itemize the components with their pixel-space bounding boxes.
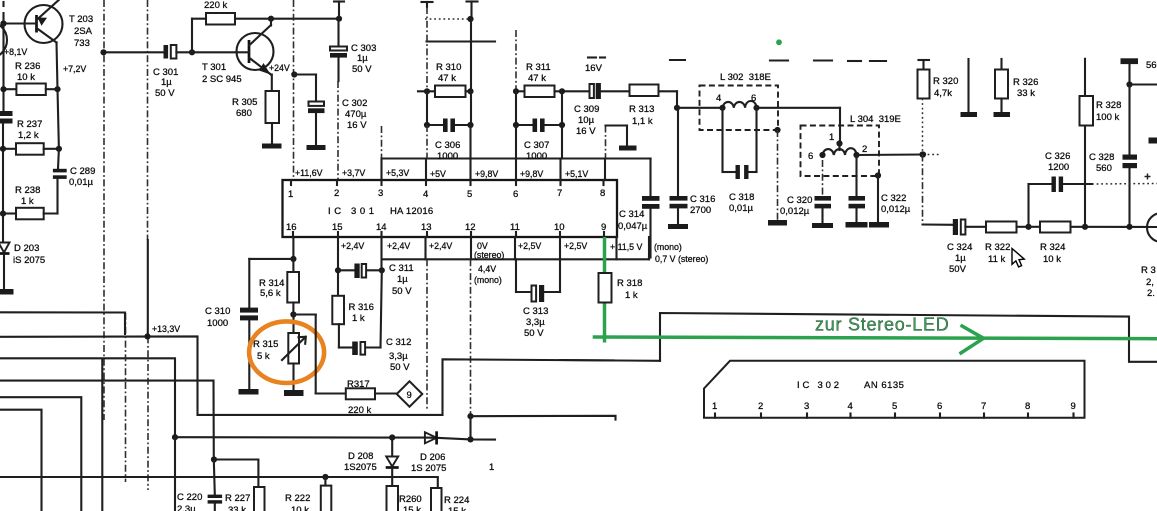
wire duct lower-left tail [560, 359, 614, 361]
resistor R328 [1084, 59, 1086, 96]
svg-text:R 236: R 236 [15, 61, 40, 72]
capacitor C312 [381, 270, 382, 347]
capacitor C316 [677, 108, 679, 196]
chain pin1 column +24V [293, 0, 295, 180]
duct outline [660, 313, 1157, 362]
svg-text:(mono): (mono) [654, 242, 682, 252]
capacitor C311 [337, 237, 339, 270]
chain x125.5 lower [125, 313, 127, 482]
svg-text:R 322: R 322 [985, 242, 1010, 253]
svg-text:0,012µ: 0,012µ [780, 206, 810, 217]
chain pin13 column down [426, 259, 428, 410]
resistor R305 [266, 91, 280, 123]
section chain line x148 [147, 0, 149, 240]
svg-text:1,2 k: 1,2 k [18, 130, 39, 141]
ground [668, 224, 688, 229]
capacitor C289 [57, 149, 60, 169]
wire top rail to C303 [271, 18, 339, 20]
ground [846, 222, 868, 228]
svg-text:+7,2V: +7,2V [63, 64, 86, 74]
svg-text:2: 2 [758, 401, 763, 412]
svg-text:C 314: C 314 [619, 209, 644, 220]
transistor (partial, right edge) [1147, 213, 1157, 242]
capacitor C309 [590, 84, 594, 98]
wire C301 input [104, 51, 164, 53]
ground [768, 220, 787, 226]
wire +24V to C302 [291, 71, 297, 77]
ground [284, 390, 304, 396]
svg-text:R 324: R 324 [1040, 242, 1065, 253]
svg-text:1: 1 [712, 401, 717, 412]
green dot [776, 39, 782, 45]
svg-text:1S 2075: 1S 2075 [411, 463, 446, 474]
svg-text:C 306: C 306 [435, 140, 460, 151]
svg-text:220 k: 220 k [204, 0, 227, 11]
svg-text:5 k: 5 k [257, 351, 270, 362]
svg-text:16: 16 [286, 222, 297, 233]
svg-text:R317: R317 [347, 379, 370, 390]
svg-text:6: 6 [513, 189, 518, 200]
wire left rail [2, 2, 4, 6]
resistor R224 [431, 488, 442, 511]
ground [619, 146, 637, 151]
svg-text:C 324: C 324 [947, 242, 972, 253]
capacitor C313 [515, 259, 517, 292]
svg-text:T 203: T 203 [69, 14, 93, 25]
svg-text:R 328: R 328 [1096, 100, 1121, 111]
svg-text:6: 6 [751, 93, 756, 104]
svg-text:14: 14 [376, 222, 387, 233]
wire to R227 [214, 460, 258, 488]
svg-text:R 237: R 237 [17, 119, 42, 130]
capacitor C314 [642, 196, 660, 201]
dashes seam y60 [670, 60, 886, 61]
svg-text:1000: 1000 [437, 151, 458, 162]
green wire vertical [603, 237, 607, 343]
svg-text:1µ: 1µ [161, 77, 172, 88]
svg-text:15 k: 15 k [448, 506, 466, 511]
svg-text:1,1 k: 1,1 k [632, 116, 653, 127]
pin ticks top [291, 180, 604, 185]
green arrow [961, 325, 984, 338]
svg-text:+2,5V: +2,5V [564, 241, 587, 251]
svg-text:10 k: 10 k [1043, 254, 1061, 265]
svg-text:D 203: D 203 [14, 243, 39, 254]
capacitor C306 [426, 91, 428, 125]
svg-text:(mono): (mono) [474, 275, 502, 285]
pin16 column [292, 237, 294, 259]
svg-text:1: 1 [288, 189, 293, 200]
svg-text:(stereo): (stereo) [474, 250, 504, 260]
svg-text:R 238: R 238 [15, 185, 40, 196]
svg-text:C 302: C 302 [342, 98, 367, 109]
svg-text:2: 2 [862, 144, 867, 155]
svg-text:8: 8 [600, 188, 605, 199]
svg-text:50 V: 50 V [390, 362, 410, 373]
svg-text:9: 9 [1071, 401, 1076, 412]
IC U302 AN6135 [704, 361, 1085, 418]
green wire horizontal [593, 337, 1157, 339]
svg-text:R260: R260 [399, 494, 422, 505]
wire collector T203 down [57, 43, 58, 90]
svg-text:+9,8V: +9,8V [475, 169, 498, 179]
capacitor C302 [309, 102, 325, 106]
svg-text:+5V: +5V [430, 169, 446, 179]
svg-text:+24V: +24V [269, 63, 290, 73]
svg-text:2,3µ: 2,3µ [177, 504, 196, 511]
wire +13,3V upper branch [0, 312, 125, 334]
svg-text:1000: 1000 [207, 318, 228, 329]
svg-text:R 326: R 326 [1013, 77, 1038, 88]
wire [2, 124, 4, 214]
resistor R310 [418, 90, 435, 92]
section chain line x104 [103, 0, 105, 420]
wire dashes y19 [425, 18, 471, 20]
diode D208 [391, 438, 393, 457]
wire y41.5 [427, 40, 496, 42]
ground [0, 289, 14, 295]
svg-text:50 V: 50 V [524, 328, 544, 339]
svg-text:+13,3V: +13,3V [152, 324, 180, 334]
IC U301 HA12016 [283, 180, 618, 237]
svg-text:T 301: T 301 [202, 62, 226, 73]
svg-text:R 305: R 305 [232, 97, 257, 108]
capacitor under L304 pin2 [855, 155, 857, 196]
columns to strip [515, 125, 517, 159]
resistor R238 [16, 208, 44, 220]
top voltage strip box [382, 159, 651, 181]
chain pin12 column down [470, 259, 472, 416]
svg-text:16V: 16V [585, 63, 603, 74]
chain pin3 column [381, 126, 383, 159]
chain pin4 column [426, 7, 428, 91]
svg-text:C 309: C 309 [574, 104, 599, 115]
wire R320/L304 node to C324 [919, 151, 925, 157]
svg-text:3: 3 [804, 401, 809, 412]
svg-text:4: 4 [848, 401, 853, 412]
resistor R227 [254, 487, 265, 511]
svg-text:50V: 50V [949, 264, 967, 275]
capacitor C328 [1128, 85, 1130, 155]
svg-text:33 k: 33 k [228, 505, 246, 511]
wire [58, 89, 59, 149]
svg-text:+2,4V: +2,4V [387, 241, 410, 251]
svg-text:100 k: 100 k [1096, 112, 1119, 123]
svg-text:1200: 1200 [1048, 162, 1069, 173]
resistor R237 [3, 148, 16, 150]
svg-text:4,7k: 4,7k [934, 88, 952, 99]
svg-text:1 k: 1 k [625, 290, 638, 301]
svg-text:HA 12016: HA 12016 [390, 206, 433, 217]
svg-text:1S2075: 1S2075 [344, 462, 377, 473]
wire bus 2 [0, 358, 175, 437]
svg-text:3,3µ: 3,3µ [526, 317, 545, 328]
svg-text:C 328: C 328 [1089, 152, 1114, 163]
svg-text:0,01µ: 0,01µ [69, 177, 93, 188]
svg-text:2: 2 [334, 188, 339, 199]
svg-text:C 307: C 307 [524, 140, 549, 151]
inductor L302 shield box [700, 86, 779, 131]
svg-text:6: 6 [937, 401, 942, 412]
resistor R314 [292, 259, 294, 272]
svg-text:L 302 318E: L 302 318E [720, 72, 771, 83]
svg-text:+9,8V: +9,8V [520, 169, 543, 179]
capacitor C301 [164, 45, 169, 59]
svg-text:D 206: D 206 [420, 452, 445, 463]
svg-text:iS 2075: iS 2075 [13, 255, 45, 266]
IC302 pin ticks [715, 414, 1074, 418]
capacitor C303 [337, 19, 339, 47]
wire to C220 [214, 460, 215, 495]
wire base T203 [4, 22, 37, 24]
svg-text:0,7 V (stereo): 0,7 V (stereo) [655, 254, 708, 264]
ground [961, 112, 978, 117]
wire x175 down [174, 437, 176, 511]
svg-text:50 V: 50 V [155, 88, 175, 99]
svg-text:1µ: 1µ [955, 253, 966, 264]
svg-text:2SA: 2SA [74, 26, 93, 37]
resistor R222 [324, 477, 326, 486]
svg-text:C 316: C 316 [690, 194, 715, 205]
svg-text:16 V: 16 V [347, 120, 367, 131]
pin ticks bottom [293, 232, 604, 237]
svg-text:+8,1V: +8,1V [4, 47, 27, 57]
shield ground L302 [774, 127, 780, 133]
capacitor 560 top [1121, 58, 1139, 64]
svg-text:C 320: C 320 [787, 195, 812, 206]
shield ground L304 [875, 172, 881, 178]
svg-text:4: 4 [716, 93, 721, 104]
svg-text:2.: 2. [1147, 288, 1155, 299]
resistor R326 [1000, 59, 1002, 70]
wire L304 pin2 out [857, 153, 924, 156]
svg-text:C 311: C 311 [389, 263, 414, 274]
potentiometer R315 [292, 315, 294, 334]
svg-text:1µ: 1µ [397, 274, 408, 285]
svg-text:D 208: D 208 [348, 451, 373, 462]
wire corner outer [0, 397, 81, 511]
svg-text:11 k: 11 k [988, 254, 1006, 265]
wire vertical x102.5 [101, 359, 103, 511]
svg-text:R 227: R 227 [225, 493, 250, 504]
svg-text:7: 7 [981, 401, 986, 412]
svg-text:33 k: 33 k [1017, 88, 1035, 99]
svg-text:2,: 2, [1146, 277, 1154, 288]
svg-text:AN 6135: AN 6135 [864, 380, 904, 391]
svg-text:C 312: C 312 [386, 337, 411, 348]
svg-text:3: 3 [378, 188, 383, 199]
wire y416 right segment [471, 416, 616, 420]
svg-text:1: 1 [829, 132, 834, 143]
transistor (partial, left edge) [0, 22, 7, 59]
diode D203 [0, 243, 10, 253]
svg-text:L 304 319E: L 304 319E [850, 114, 901, 125]
svg-text:4: 4 [423, 189, 428, 200]
svg-text:+5,3V: +5,3V [386, 168, 409, 178]
svg-text:C 220: C 220 [177, 492, 202, 503]
svg-text:7: 7 [557, 188, 562, 199]
chain pin6 column above [515, 30, 517, 91]
ground [812, 223, 833, 228]
svg-text:+3,7V: +3,7V [342, 168, 365, 178]
wire to C314 [580, 157, 651, 159]
plus mark [1145, 176, 1151, 178]
resistor R313 [630, 85, 659, 97]
capacitor C318 [721, 108, 723, 172]
resistor R236 [4, 88, 17, 90]
transistor T301 [237, 19, 274, 91]
svg-text:C 322: C 322 [881, 193, 906, 204]
svg-text:3,3µ: 3,3µ [389, 351, 408, 362]
svg-text:733: 733 [74, 38, 90, 49]
svg-text:5,6 k: 5,6 k [260, 288, 281, 299]
svg-text:50 V: 50 V [392, 286, 412, 297]
columns to strip [426, 125, 428, 159]
ground [239, 389, 259, 395]
svg-text:10: 10 [554, 222, 565, 233]
svg-text:C 326: C 326 [1045, 151, 1070, 162]
svg-text:1 k: 1 k [21, 196, 34, 207]
svg-text:R 310: R 310 [436, 62, 461, 73]
svg-text:R 315: R 315 [253, 339, 278, 350]
transistor T203 [25, 0, 63, 43]
capacitor C324 [953, 219, 958, 235]
svg-text:11: 11 [510, 222, 520, 233]
chain pin2 column [337, 81, 339, 180]
svg-text:C 289: C 289 [70, 166, 95, 177]
ground [262, 144, 282, 149]
svg-text:+11,6V: +11,6V [295, 168, 323, 178]
inductor L304 shield box [801, 126, 880, 177]
wire wiper to R317 [293, 313, 315, 315]
svg-text:15 k: 15 k [403, 505, 421, 511]
wire corner inner [0, 410, 42, 511]
wire row y477 [0, 477, 438, 488]
svg-text:IC 301: IC 301 [328, 206, 378, 217]
svg-text:1000: 1000 [526, 151, 547, 162]
resistor R316 [337, 270, 339, 296]
svg-text:0,012µ: 0,012µ [881, 204, 911, 215]
svg-text:R 311: R 311 [526, 62, 551, 73]
svg-text:2700: 2700 [690, 205, 711, 216]
svg-text:15: 15 [332, 222, 343, 233]
svg-text:47 k: 47 k [528, 73, 546, 84]
capacitor C310 [240, 308, 258, 313]
svg-text:+2,4V: +2,4V [429, 241, 452, 251]
svg-text:R 224: R 224 [444, 495, 469, 506]
svg-text:8: 8 [1025, 401, 1030, 412]
svg-text:9: 9 [407, 390, 412, 401]
pin5 column [470, 19, 472, 91]
resistor R311 [525, 86, 555, 98]
wire node to C310 [249, 258, 293, 260]
stub caps top edge [422, 1, 433, 3]
inductor L302 [677, 101, 840, 108]
wire to edge y84.5 [1130, 83, 1157, 85]
resistor R318 (over green) [599, 273, 612, 303]
svg-text:+ 11,5 V: + 11,5 V [610, 242, 642, 252]
svg-text:R 313: R 313 [629, 104, 654, 115]
svg-text:1µ: 1µ [357, 53, 368, 64]
svg-text:1: 1 [489, 462, 494, 473]
svg-text:2 SC 945: 2 SC 945 [202, 74, 242, 85]
svg-text:16 V: 16 V [576, 126, 596, 137]
ground [869, 222, 889, 228]
svg-text:12: 12 [465, 222, 476, 233]
svg-text:C 313: C 313 [523, 306, 548, 317]
svg-text:9: 9 [601, 222, 606, 233]
mouse cursor [1012, 249, 1024, 267]
wire bus 3 [0, 381, 214, 460]
svg-text:1 k: 1 k [352, 313, 365, 324]
diode D206 [425, 432, 437, 443]
resistor R318 [599, 273, 612, 303]
svg-text:R 316: R 316 [349, 302, 374, 313]
svg-text:470µ: 470µ [345, 109, 367, 120]
svg-text:C 310: C 310 [205, 306, 230, 317]
orange circle highlight [249, 321, 324, 383]
ground column mid [967, 59, 969, 112]
svg-text:47 k: 47 k [438, 73, 456, 84]
svg-text:680: 680 [236, 108, 252, 119]
svg-text:R 222: R 222 [285, 493, 310, 504]
svg-text:6: 6 [808, 151, 813, 162]
svg-text:R 320: R 320 [933, 76, 958, 87]
resistor R320 [919, 59, 930, 61]
svg-text:IC 302: IC 302 [797, 380, 842, 391]
ground bracket near C309 [605, 126, 607, 159]
capacitor (left edge) [0, 111, 13, 116]
resistor R317 [346, 388, 375, 399]
inductor L304 [823, 148, 857, 155]
capacitor stub right edge [1149, 138, 1157, 144]
wire L302 to L304 [839, 108, 841, 143]
ground [307, 145, 326, 150]
svg-text:C 318: C 318 [729, 192, 754, 203]
svg-text:5: 5 [892, 401, 897, 412]
resistor R322 [986, 222, 1017, 233]
svg-text:+2,4V: +2,4V [341, 241, 364, 251]
resistor R260 [387, 486, 399, 511]
svg-text:0,01µ: 0,01µ [729, 203, 753, 214]
svg-text:5: 5 [467, 189, 472, 200]
capacitor C220 [208, 495, 223, 498]
svg-text:50 V: 50 V [352, 64, 372, 75]
wire diode row [175, 437, 495, 439]
connector diamond 9 [397, 381, 423, 406]
svg-text:10 k: 10 k [291, 505, 309, 511]
svg-text:+5,1V: +5,1V [565, 169, 588, 179]
svg-text:10 k: 10 k [17, 72, 35, 83]
capacitor C320 [822, 160, 824, 196]
svg-text:+2,5V: +2,5V [518, 241, 541, 251]
svg-text:zur Stereo-LED: zur Stereo-LED [815, 315, 950, 335]
bottom voltage strip box [383, 237, 649, 259]
ground [994, 112, 1011, 117]
svg-text:R 3: R 3 [1141, 265, 1156, 276]
svg-text:560: 560 [1146, 60, 1157, 71]
wire [2, 214, 4, 243]
capacitor C307 [515, 91, 517, 125]
svg-text:4,4V: 4,4V [478, 264, 496, 274]
resistor R324 [1029, 226, 1041, 228]
svg-text:560: 560 [1096, 163, 1112, 174]
svg-text:0,047µ: 0,047µ [618, 221, 648, 232]
svg-text:10µ: 10µ [578, 115, 595, 126]
wire R313 to node [676, 91, 678, 108]
svg-text:R 318: R 318 [617, 278, 642, 289]
svg-text:13: 13 [421, 222, 432, 233]
